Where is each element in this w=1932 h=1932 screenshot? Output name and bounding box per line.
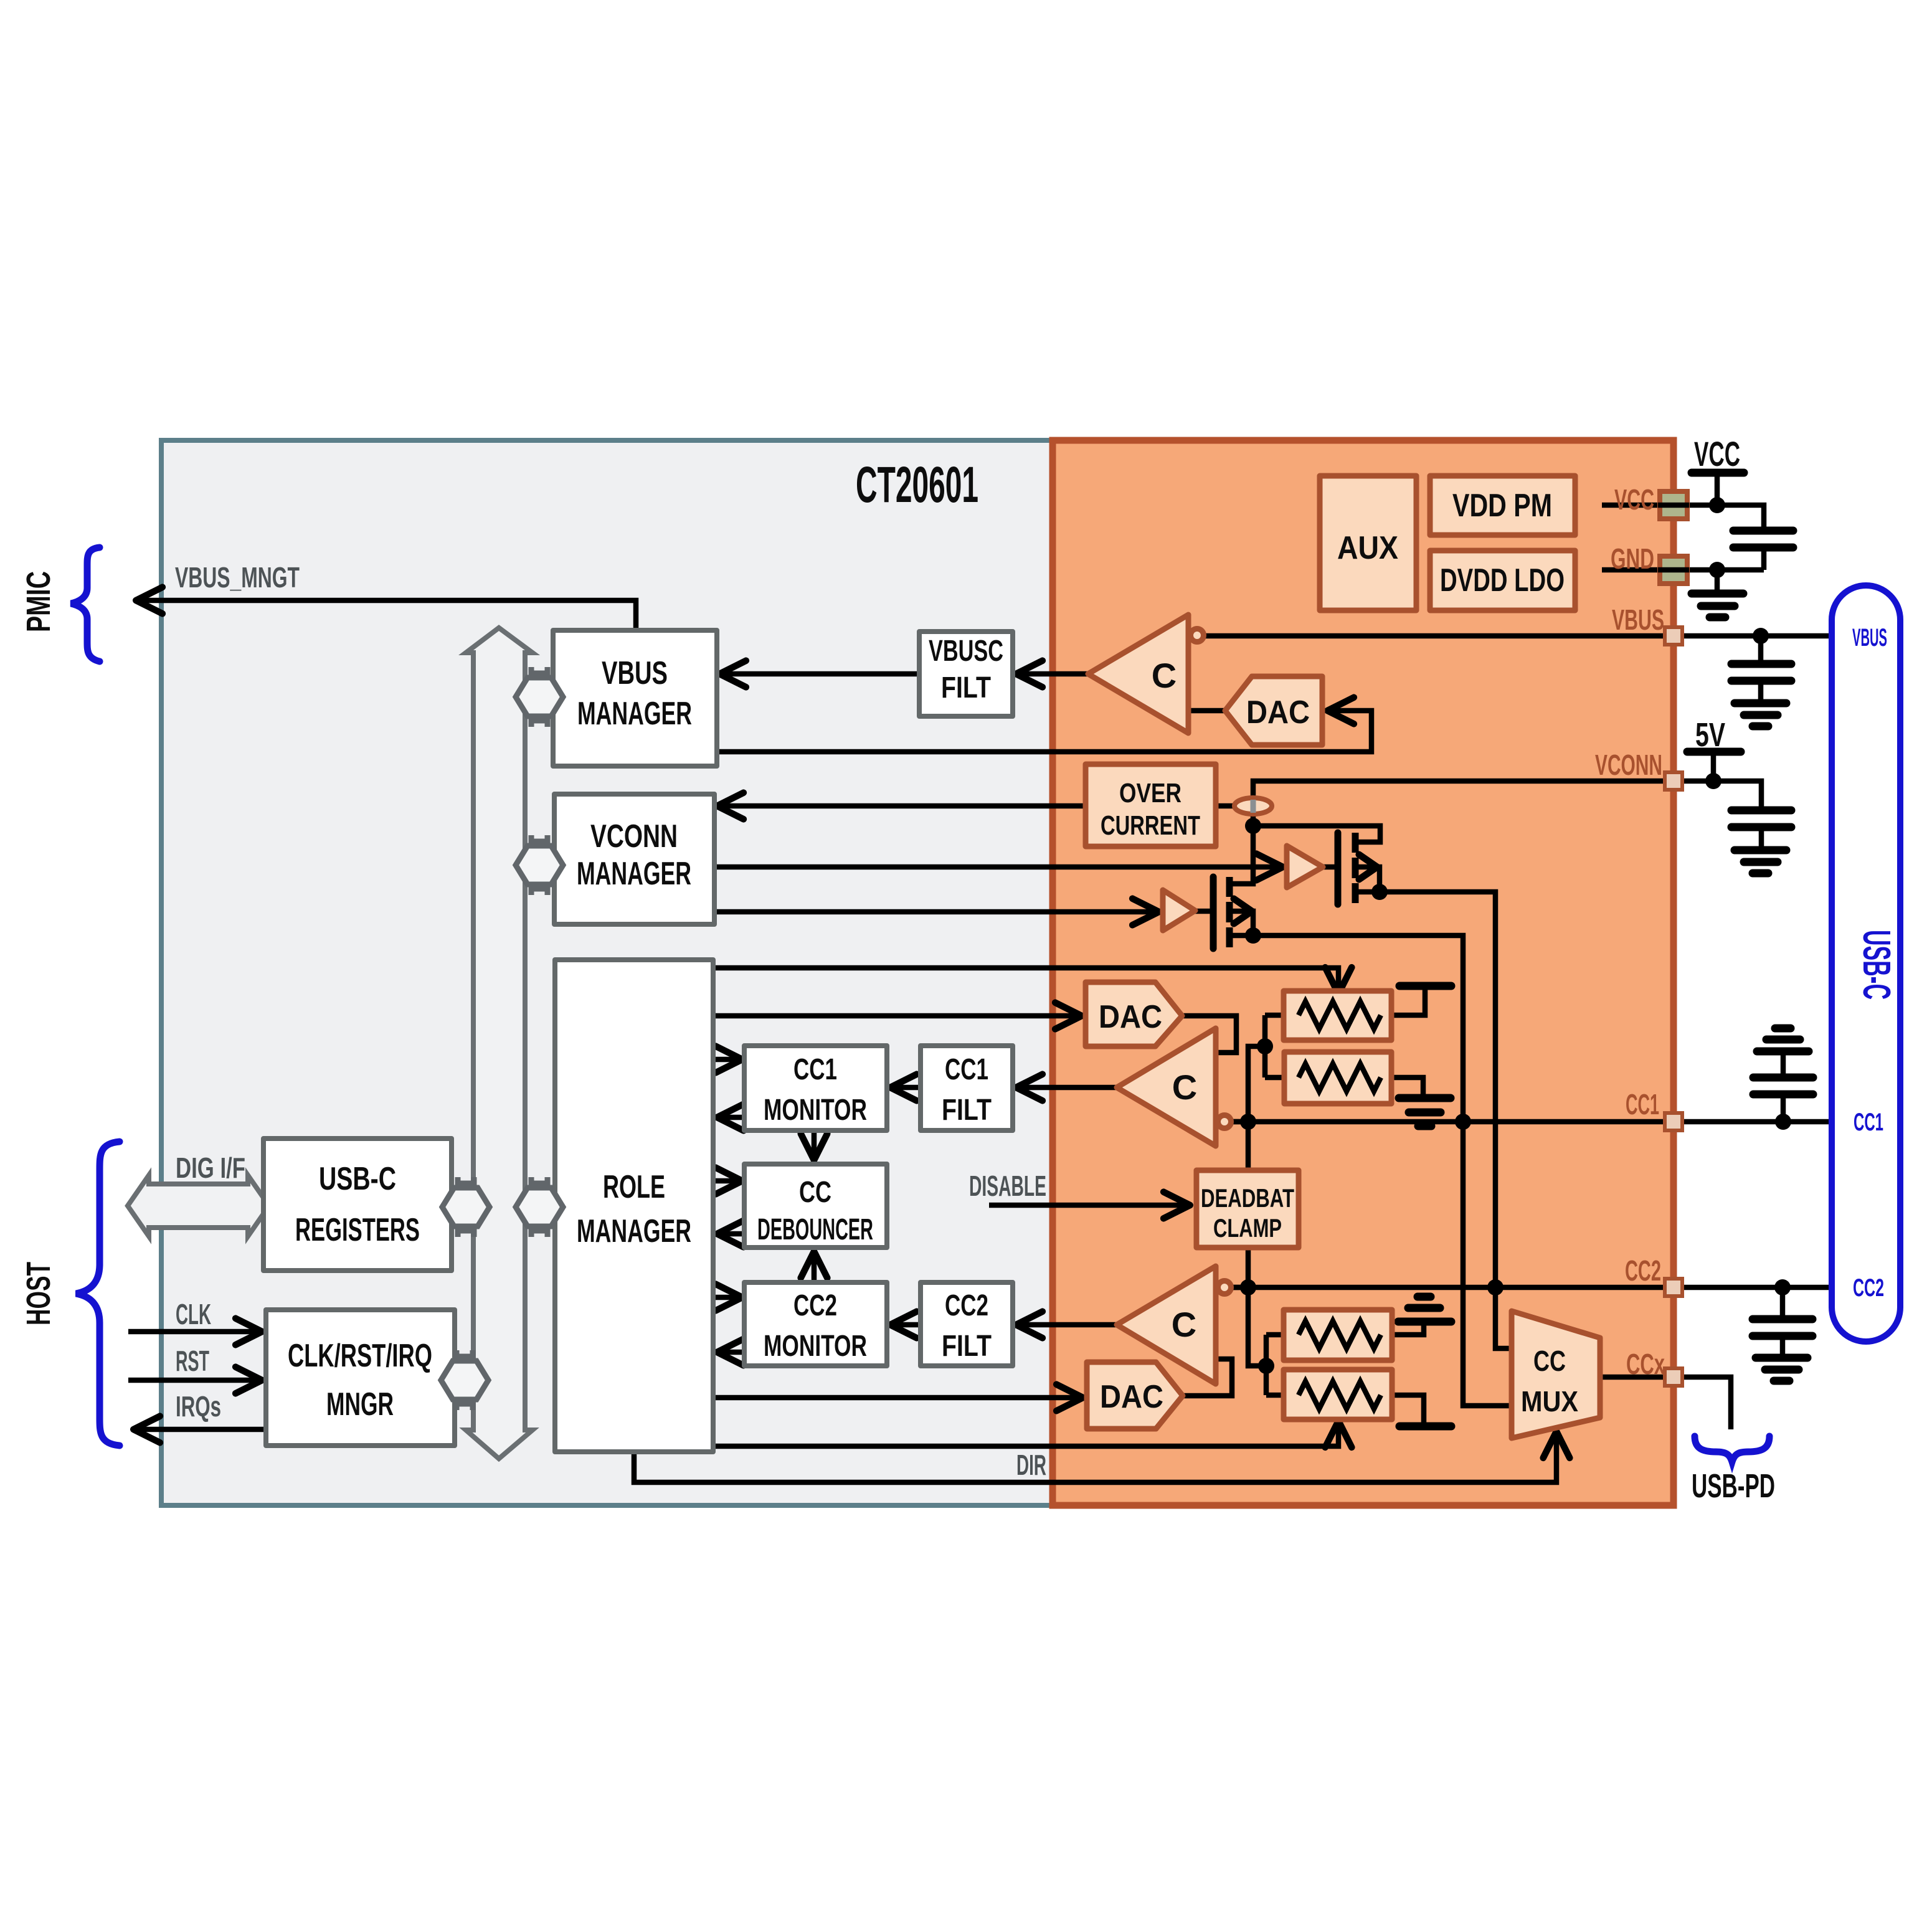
label VBUSC FILT <box>929 635 1003 704</box>
supply rail tick for R1 <box>1399 982 1451 990</box>
wire comparator C3 output to CC2 FILT <box>1017 1322 1117 1328</box>
brace USB-PD (blue) <box>1695 1436 1769 1462</box>
wire DIR from ROLE MANAGER to CC MUX select <box>634 1432 1556 1482</box>
hexagon tap VBUS MANAGER <box>516 667 563 727</box>
svg-text:DAC: DAC <box>1100 1379 1163 1415</box>
junction GND <box>1709 562 1725 578</box>
wire ROLE MANAGER to Rp1 trim <box>713 968 1338 993</box>
svg-text:CC: CC <box>799 1176 831 1209</box>
wire ROLE MANAGER to Rp2 trim <box>713 1422 1338 1446</box>
svg-text:GND: GND <box>1611 542 1654 575</box>
comparator C1 (VBUS) <box>1088 615 1188 733</box>
wire OVER CURRENT output to sense <box>1216 803 1236 809</box>
svg-text:FILT: FILT <box>942 1330 992 1363</box>
wire R1 right terminal to supply rail <box>1375 987 1425 1015</box>
supply rail tick for R4 <box>1399 1423 1451 1431</box>
junction CC1 comparator tap <box>1240 1114 1256 1130</box>
comparator C2 (CC1) <box>1117 1028 1216 1146</box>
block AUX <box>1320 476 1416 610</box>
current sense ellipse <box>1234 798 1272 814</box>
svg-text:HOST: HOST <box>20 1262 57 1325</box>
hexagon tap ROLE MANAGER <box>516 1177 563 1237</box>
svg-text:RST: RST <box>176 1345 209 1377</box>
block CC DEBOUNCER <box>744 1164 887 1248</box>
capacitor C5 (VBUS) <box>1758 636 1764 664</box>
label ROLE MANAGER <box>577 1169 691 1249</box>
svg-text:VDD PM: VDD PM <box>1452 488 1552 524</box>
wire Q2 source stub <box>1232 933 1253 939</box>
wire IRQs out of CLK/RST/IRQ MNGR <box>135 1427 266 1432</box>
wire RST into CLK/RST/IRQ MNGR <box>128 1378 261 1383</box>
label DEADBAT CLAMP <box>1201 1183 1294 1243</box>
wire VCONN net vertical from pin through sense <box>1253 781 1674 826</box>
junction Q1 source <box>1371 884 1388 900</box>
wire comparator C3 inverting input to CC2 node <box>1233 1285 1248 1290</box>
comparator C3 (CC2) <box>1117 1266 1216 1384</box>
wire R4 right terminal to supply rail <box>1375 1395 1424 1425</box>
label CC2 MONITOR <box>764 1289 867 1363</box>
brace HOST (blue) <box>76 1142 120 1446</box>
junction VCONN 5V <box>1705 773 1721 789</box>
svg-text:MANAGER: MANAGER <box>577 696 692 732</box>
svg-text:CLK: CLK <box>176 1298 211 1330</box>
wire CC2 MONITOR to CC DEBOUNCER <box>812 1252 817 1282</box>
svg-text:CC: CC <box>1533 1345 1566 1377</box>
svg-text:CURRENT: CURRENT <box>1101 810 1200 841</box>
wire R2 left terminal <box>1265 1075 1302 1081</box>
wire R3 right terminal to ground (inverted) <box>1375 1323 1424 1335</box>
svg-text:CC1: CC1 <box>1854 1109 1883 1136</box>
svg-text:MUX: MUX <box>1521 1385 1578 1418</box>
wire CC2 MONITOR to ROLE MANAGER <box>718 1350 744 1355</box>
wire Q1 source to CC2 node and CC MUX input 1 <box>1380 892 1513 1348</box>
ground symbol at VCONN cap <box>1735 850 1786 873</box>
wire across VCC pin <box>1658 503 1689 508</box>
junction Q2 source <box>1245 927 1261 944</box>
label CC1 FILT <box>942 1053 992 1127</box>
svg-text:PMIC: PMIC <box>20 571 57 632</box>
svg-text:MNGR: MNGR <box>326 1386 394 1423</box>
junction CC2 resistor common <box>1258 1358 1274 1374</box>
junction CC2 comparator tap <box>1240 1279 1256 1295</box>
wire CC1 node through DEADBAT CLAMP to CC2 node <box>1248 1122 1266 1366</box>
svg-text:CC1: CC1 <box>945 1053 988 1086</box>
MOSFET Q2 <box>1213 877 1229 949</box>
wire DISABLE into DEADBAT CLAMP <box>989 1203 1189 1208</box>
svg-text:CCx: CCx <box>1626 1348 1665 1380</box>
ground symbol at GND pin <box>1692 594 1743 617</box>
wire ROLE MANAGER to DAC D3 <box>713 1395 1082 1401</box>
wire CLK into CLK/RST/IRQ MNGR <box>128 1329 261 1335</box>
wire DAC D3 output to comparator C3 reference <box>1183 1359 1232 1396</box>
junction VCC <box>1709 497 1725 513</box>
svg-text:USB-PD: USB-PD <box>1692 1467 1775 1505</box>
capacitor C6 (VCONN) <box>1674 781 1761 810</box>
wire R1 left terminal <box>1265 1013 1302 1018</box>
label CLK/RST/IRQ MNGR <box>288 1338 432 1423</box>
wire CC2 line to pin and connector <box>1233 1285 1832 1290</box>
svg-text:DEBOUNCER: DEBOUNCER <box>757 1213 873 1246</box>
wire VCONN MANAGER gate drive B <box>714 909 1158 915</box>
wire VBUS MANAGER to DAC D1 reference <box>717 711 1371 752</box>
hexagon tap USB-C REGISTERS <box>442 1177 490 1237</box>
block VBUSC FILT <box>919 632 1013 716</box>
wire CC2 FILT to CC2 MONITOR <box>891 1322 921 1328</box>
wire ROLE MANAGER to CC1 MONITOR <box>713 1057 741 1063</box>
brace PMIC (blue) <box>71 547 100 661</box>
wire CC1 MONITOR to ROLE MANAGER <box>718 1115 744 1120</box>
resistor R1 (Rp CC1) <box>1284 991 1391 1040</box>
svg-text:ROLE: ROLE <box>603 1169 665 1205</box>
svg-text:AUX: AUX <box>1337 530 1398 566</box>
ground for R2 <box>1399 1098 1451 1126</box>
svg-text:CC2: CC2 <box>1625 1254 1661 1287</box>
capacitor C7 (CC1, inverted) <box>1781 1094 1786 1122</box>
svg-text:IRQs: IRQs <box>176 1390 221 1423</box>
resistor R3 (Rd CC2) <box>1284 1310 1392 1360</box>
pin VCONN <box>1665 772 1682 790</box>
DAC D3 (CC2) <box>1087 1362 1183 1429</box>
wire ROLE MANAGER to DAC D2 <box>713 1013 1081 1019</box>
wire ROLE MANAGER to CC DEBOUNCER <box>713 1178 741 1184</box>
svg-text:DISABLE: DISABLE <box>969 1170 1046 1202</box>
svg-text:CLAMP: CLAMP <box>1213 1213 1282 1243</box>
wire VBUS_MNGT from VBUS MANAGER to PMIC <box>137 600 636 630</box>
capacitor C8 (CC2) <box>1780 1287 1786 1319</box>
block CC1 MONITOR <box>744 1046 887 1130</box>
inverted ground for R3 <box>1398 1297 1451 1322</box>
bus DIG I/F block arrow <box>128 1175 269 1236</box>
wire across GND pin <box>1658 567 1689 573</box>
buffer U1 <box>1287 846 1323 888</box>
hexagon tap VCONN MANAGER <box>516 835 563 895</box>
wire ROLE MANAGER to CC2 MONITOR <box>713 1295 741 1300</box>
svg-text:MANAGER: MANAGER <box>577 1213 691 1249</box>
wire VCC pin net <box>1602 505 1764 531</box>
svg-text:VCC: VCC <box>1614 483 1654 516</box>
svg-text:VCONN: VCONN <box>590 818 678 855</box>
svg-text:DAC: DAC <box>1246 694 1310 731</box>
5V power rail <box>1687 748 1741 756</box>
CC MUX <box>1512 1311 1600 1438</box>
svg-text:VBUS_MNGT: VBUS_MNGT <box>175 561 300 594</box>
DAC D2 (CC1) <box>1086 982 1182 1046</box>
wire CC1 resistor common node <box>1262 1015 1268 1077</box>
MOSFET Q1 <box>1338 833 1355 904</box>
VCC power rail top <box>1692 469 1744 477</box>
block CC2 MONITOR <box>744 1282 887 1366</box>
label USB-C REGISTERS <box>295 1161 420 1248</box>
wire VCONN MANAGER gate drive A <box>714 864 1282 870</box>
analog front-end region (orange) <box>1053 440 1674 1505</box>
wire CC2 resistor common node <box>1264 1335 1269 1395</box>
pin CCx <box>1665 1368 1682 1386</box>
svg-text:MONITOR: MONITOR <box>764 1094 867 1127</box>
wire comparator C2 inverting input to CC1 node <box>1233 1119 1248 1125</box>
svg-text:VBUSC: VBUSC <box>929 635 1003 668</box>
block DVDD LDO <box>1430 551 1575 610</box>
wire Q2 body arrow <box>1232 911 1253 935</box>
junction CC2 to MUX <box>1487 1279 1503 1295</box>
svg-text:DIG I/F: DIG I/F <box>176 1152 245 1184</box>
DAC D1 (VBUS) <box>1225 676 1322 745</box>
ground symbol at CC2 cap <box>1756 1358 1807 1381</box>
block VBUS MANAGER <box>553 630 717 766</box>
wire R2 right terminal to ground <box>1375 1077 1423 1096</box>
svg-text:DVDD LDO: DVDD LDO <box>1440 562 1565 599</box>
wire comparator C2 output to CC1 FILT <box>1017 1085 1117 1091</box>
block OVER CURRENT <box>1086 764 1216 846</box>
svg-text:CC1: CC1 <box>1626 1088 1659 1120</box>
wire VCONN to MOSFET Q2 drain <box>1231 826 1253 884</box>
pin CC2 <box>1665 1279 1682 1296</box>
chip body CT20601 <box>161 440 1674 1505</box>
wire CC1 FILT to CC1 MONITOR <box>891 1085 921 1091</box>
wire buffer U1 output to Q1 gate <box>1323 864 1337 870</box>
wire OVER CURRENT to VCONN MANAGER <box>718 803 1086 809</box>
svg-text:C: C <box>1172 1068 1197 1107</box>
junction CC1 external <box>1775 1114 1791 1130</box>
svg-text:DAC: DAC <box>1099 999 1162 1035</box>
svg-text:CC2: CC2 <box>793 1289 837 1322</box>
wire Q1 body arrow <box>1357 867 1380 892</box>
wire comparator C1 output to VBUSC FILT <box>1017 671 1088 677</box>
wire CC1 line to pin and connector <box>1233 1119 1832 1125</box>
svg-text:OVER: OVER <box>1119 778 1181 808</box>
svg-text:FILT: FILT <box>941 671 991 704</box>
wire VCONN to MOSFET Q1 drain <box>1253 826 1380 842</box>
svg-text:REGISTERS: REGISTERS <box>295 1212 420 1248</box>
svg-text:CC2: CC2 <box>1853 1274 1884 1302</box>
wire GND pin net <box>1602 567 1764 573</box>
svg-text:VBUS: VBUS <box>1852 624 1887 651</box>
junction VCONN sense <box>1245 818 1261 834</box>
block DEADBAT CLAMP <box>1196 1170 1299 1248</box>
internal bus arrow (vertical) <box>466 628 533 1459</box>
svg-text:CC2: CC2 <box>945 1289 988 1322</box>
wire R4 left terminal <box>1266 1393 1302 1398</box>
svg-text:MANAGER: MANAGER <box>577 856 691 892</box>
svg-text:DIR: DIR <box>1016 1449 1046 1481</box>
hexagon tap CLK/RST/IRQ MNGR <box>441 1350 488 1410</box>
svg-text:VCC: VCC <box>1694 434 1740 473</box>
pin VBUS <box>1665 627 1682 645</box>
svg-text:USB-C: USB-C <box>1855 930 1898 1000</box>
label CC DEBOUNCER <box>757 1176 873 1246</box>
wire buffer U2 output to Q2 gate <box>1195 909 1212 914</box>
pin GND <box>1660 556 1687 584</box>
svg-text:FILT: FILT <box>942 1094 992 1127</box>
block USB-C REGISTERS <box>263 1139 452 1271</box>
resistor R4 (Rp CC2) <box>1284 1370 1392 1419</box>
svg-text:VCONN: VCONN <box>1595 749 1662 781</box>
capacitor C4 (VCC decoupling) <box>1733 531 1793 547</box>
svg-text:DEADBAT: DEADBAT <box>1201 1183 1294 1213</box>
pin CC1 <box>1665 1113 1682 1130</box>
block CLK/RST/IRQ MNGR <box>266 1310 455 1446</box>
svg-text:5V: 5V <box>1695 716 1725 754</box>
wire VBUSC FILT to VBUS MANAGER <box>721 671 919 677</box>
svg-text:C: C <box>1172 1305 1196 1344</box>
wire Q2 source to CC1 node and CC MUX input 2 <box>1253 935 1513 1406</box>
junction CC1 resistor common <box>1257 1038 1273 1054</box>
svg-text:MONITOR: MONITOR <box>764 1330 867 1363</box>
wire CC DEBOUNCER to ROLE MANAGER <box>718 1231 744 1237</box>
svg-text:USB-C: USB-C <box>319 1161 396 1197</box>
wire R3 left terminal <box>1266 1332 1302 1338</box>
wire comparator C1 reference from DAC D1 <box>1188 708 1225 714</box>
block ROLE MANAGER <box>555 960 713 1452</box>
svg-text:VBUS: VBUS <box>1612 604 1664 636</box>
wire CCx from CC MUX output <box>1600 1377 1731 1429</box>
ground symbol at VBUS cap <box>1735 703 1786 726</box>
svg-text:C: C <box>1152 656 1177 695</box>
label OVER CURRENT <box>1101 778 1200 841</box>
wire comparator C1 output to VBUS pin <box>1206 633 1832 639</box>
svg-text:CT20601: CT20601 <box>856 457 978 513</box>
block CC2 FILT <box>921 1282 1013 1366</box>
inverted ground at CC1 cap <box>1757 1028 1809 1051</box>
label VBUS MANAGER <box>577 655 692 732</box>
label CC2 FILT <box>942 1289 992 1363</box>
svg-text:CLK/RST/IRQ: CLK/RST/IRQ <box>288 1338 432 1374</box>
resistor R2 (Rd CC1) <box>1284 1052 1391 1104</box>
wire DAC D2 output to comparator C2 reference <box>1182 1016 1236 1053</box>
svg-text:CC1: CC1 <box>793 1053 837 1086</box>
junction VBUS <box>1753 628 1769 644</box>
wire Q1 source stub <box>1357 889 1380 895</box>
junction CC2 external <box>1774 1279 1791 1295</box>
block CC1 FILT <box>921 1046 1013 1130</box>
block VDD PM <box>1430 476 1575 535</box>
block VCONN MANAGER <box>554 794 714 924</box>
label CC1 MONITOR <box>764 1053 867 1127</box>
junction CC1 to MUX <box>1455 1114 1471 1130</box>
buffer U2 <box>1163 890 1195 930</box>
USB-C connector (blue capsule) <box>1832 585 1900 1342</box>
pin VCC <box>1660 491 1687 519</box>
wire CC1 MONITOR to CC DEBOUNCER <box>812 1130 817 1159</box>
svg-text:VBUS: VBUS <box>602 655 668 691</box>
label CC MUX <box>1521 1345 1578 1418</box>
label VCONN MANAGER <box>577 818 691 892</box>
